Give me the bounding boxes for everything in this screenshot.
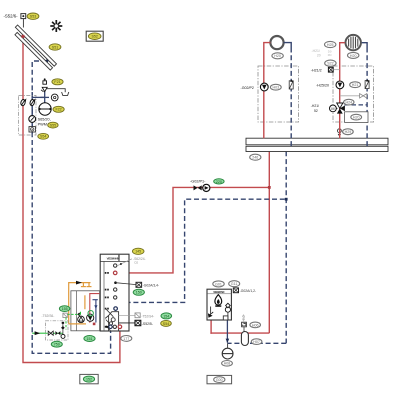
circuit 2 underfloor symbol: [346, 35, 361, 50]
storage tank body: [100, 254, 129, 331]
svg-text:F21: F21: [54, 80, 60, 84]
label S51: [49, 44, 61, 50]
pump G02/P1 group: [190, 180, 210, 192]
svg-text:G11: G11: [231, 282, 238, 286]
wire circuit2 flow (red): [340, 43, 345, 139]
label H07: [251, 339, 262, 345]
svg-text:H24: H24: [346, 101, 353, 105]
node collector flow tap (red): [22, 35, 25, 38]
label S52 boxed: [86, 31, 103, 41]
pump module P1: [77, 312, 84, 322]
svg-text:-T52/S4-: -T52/S4-: [141, 314, 154, 318]
svg-text:-H21/: -H21/: [312, 49, 320, 53]
label 759: [51, 341, 62, 347]
svg-text:-S52/6-: -S52/6-: [4, 14, 19, 19]
wire discharge to funnel: [47, 89, 66, 93]
tank coil diagonals: [106, 309, 114, 331]
boiler body: [207, 289, 231, 320]
svg-text:-G02/P2: -G02/P2: [241, 86, 254, 90]
solar expansion vessel: [39, 103, 51, 115]
label G00 boxed: [207, 375, 232, 383]
svg-text:155: 155: [62, 307, 68, 311]
circuit 2 group box: [333, 66, 374, 122]
wire cold water inlet (green) with arrow: [32, 318, 66, 336]
pressure gauge P: [51, 94, 58, 101]
svg-text:VIESMANN: VIESMANN: [107, 256, 120, 260]
svg-text:M: M: [331, 107, 334, 111]
sensor lead S62/24: [117, 257, 146, 266]
wire boiler return drop (navy) with arrow: [226, 320, 230, 343]
boiler siphon: [223, 316, 228, 320]
svg-text:-H21/: -H21/: [311, 104, 319, 108]
manifold bar 2: [246, 146, 388, 151]
svg-text:S55: S55: [50, 124, 56, 128]
label G01: [213, 281, 224, 287]
pump H25/20: [316, 81, 344, 89]
sensor T52/S4: [119, 313, 155, 319]
bypass valve circuit2: [340, 94, 367, 98]
wire circuit1 flow (red): [264, 43, 271, 139]
solar pump S65/20: [29, 116, 36, 123]
boiler flame: [215, 295, 222, 307]
svg-text:220: 220: [216, 180, 222, 184]
svg-text:246: 246: [252, 156, 258, 160]
wire module cold (blue) with arrow: [93, 300, 98, 323]
sun symbol: [50, 20, 62, 32]
sensor S52/6 collector: [4, 14, 26, 19]
label 145: [132, 248, 144, 254]
svg-text:H03: H03: [273, 86, 280, 90]
wire solar return (blue dashed) collector to tank bottom: [32, 60, 110, 354]
svg-text:0N: 0N: [328, 53, 332, 57]
svg-text:-T52/S6-: -T52/S6-: [42, 314, 55, 318]
svg-text:H06: H06: [252, 323, 259, 327]
circuit 1 radiator symbol: [270, 36, 283, 49]
manifold bar 1: [246, 138, 388, 145]
DHW stack fittings: [61, 322, 65, 339]
svg-text:F22: F22: [55, 108, 61, 112]
svg-text:S22: S22: [327, 62, 333, 66]
label 154: [161, 313, 172, 319]
DHW inlet module box: [46, 321, 69, 340]
sensor G02A/1,2: [233, 288, 256, 293]
label S55: [48, 122, 58, 128]
label 152 boxed: [80, 374, 98, 383]
label 150: [133, 289, 144, 295]
air vent: [43, 78, 47, 84]
label 155: [59, 306, 69, 312]
svg-text:D2: D2: [135, 261, 139, 265]
label H29: [343, 129, 354, 135]
pressure gauge boiler: [222, 343, 233, 359]
svg-text:-H21/2: -H21/2: [311, 69, 322, 73]
safety valve: [41, 87, 47, 92]
label H21/20 text: [312, 49, 332, 58]
arrow DHW flow: [76, 281, 82, 285]
svg-text:H21: H21: [352, 83, 359, 87]
label H20 circuit1: [272, 53, 283, 59]
svg-text:S65/20,: S65/20,: [38, 118, 51, 122]
svg-text:-S52/5-: -S52/5-: [142, 322, 153, 326]
svg-text:H08: H08: [224, 362, 231, 366]
manifold air vent on circuit2 riser: [338, 129, 342, 137]
wire solar flow (red) collector to tank bottom: [23, 36, 120, 362]
sensor T52/S6 label: [42, 313, 68, 318]
svg-text:154: 154: [163, 314, 169, 318]
label S54: [38, 133, 49, 139]
svg-text:S51: S51: [52, 45, 58, 49]
svg-text:H25: H25: [327, 43, 334, 47]
label H08: [222, 361, 233, 367]
valve V1 on solar flow: [20, 98, 26, 106]
label 177: [121, 336, 132, 342]
svg-text:S54: S54: [40, 135, 46, 139]
label F21: [52, 79, 63, 85]
valve DHW black: [55, 331, 60, 335]
solar pump station box: [19, 96, 37, 136]
mixing valve H21/52: [311, 103, 345, 114]
label S65/20 PWM text: [38, 118, 51, 127]
label H20 boxed circuit2: [345, 112, 368, 123]
tank left flange marks: [105, 272, 109, 328]
svg-text:759: 759: [54, 343, 60, 347]
node tank mid sensor: [114, 281, 117, 284]
svg-text:52: 52: [314, 109, 318, 113]
circuit 1 group box: [258, 66, 299, 122]
label 246: [250, 154, 261, 160]
expansion vessel boiler: [241, 332, 248, 346]
label H21: [350, 82, 361, 88]
svg-text:H20: H20: [353, 116, 360, 120]
sensor S52/5: [119, 320, 153, 326]
svg-text:20: 20: [317, 53, 321, 57]
label S53: [27, 13, 39, 19]
label 220: [214, 179, 224, 184]
label H06: [250, 322, 261, 328]
wire tee to safety group (blue): [32, 96, 45, 98]
svg-text:H07: H07: [253, 340, 260, 344]
wire circuit2 return (navy dashed): [345, 43, 368, 147]
solar collector panel: [15, 25, 57, 70]
flow meter: [29, 127, 35, 132]
svg-text:145: 145: [135, 250, 141, 254]
tank port circles: [109, 264, 122, 329]
boiler burner: [208, 307, 213, 318]
svg-text:G01: G01: [215, 282, 222, 286]
drain valve and label: [242, 314, 247, 332]
svg-text:S53: S53: [30, 15, 36, 19]
check valve circuit1: [289, 80, 293, 89]
wire collector sensor lead: [22, 19, 24, 28]
funnel: [62, 92, 69, 95]
tank inner vessel outline: [105, 312, 118, 331]
label S22: [325, 60, 336, 66]
svg-text:177: 177: [123, 337, 129, 341]
valve DHW white: [48, 331, 53, 335]
wire tank flow to pump G02/P1 and boiler riser (red): [117, 151, 271, 333]
svg-text:150: 150: [136, 291, 142, 295]
svg-text:-G02/P1-: -G02/P1-: [190, 180, 206, 184]
svg-text:H29: H29: [345, 130, 352, 134]
valve V2 on solar return: [29, 98, 35, 106]
check valve circuit2: [365, 79, 369, 88]
sensor bulb green: [88, 311, 93, 316]
wire circuit1 return (navy dashed): [284, 43, 292, 147]
fresh water module box: [71, 291, 100, 331]
wire boiler flow bottom (red): [210, 320, 212, 334]
sensor H21/2: [311, 67, 340, 72]
label F22: [53, 106, 64, 112]
pump module P2: [87, 314, 94, 321]
boiler pump: [225, 303, 230, 320]
tank inner circles: [111, 318, 115, 322]
wire module hot (red): [90, 294, 100, 323]
label 151: [84, 336, 95, 342]
svg-text:-G02A/3,4-: -G02A/3,4-: [143, 283, 160, 287]
svg-text:-H25/20: -H25/20: [316, 84, 329, 88]
sensor G02A/3,4: [116, 282, 160, 287]
svg-text:H20: H20: [274, 54, 281, 58]
svg-text:S52: S52: [91, 35, 97, 39]
label H25: [325, 41, 336, 47]
svg-text:PWM: PWM: [38, 123, 47, 127]
wire DHW outlet (orange) with taps: [69, 283, 92, 324]
label H24: [344, 99, 354, 105]
svg-text:H20: H20: [350, 54, 357, 58]
label G11: [229, 281, 240, 287]
svg-text:-6l,0l-: -6l,0l-: [242, 314, 246, 322]
svg-text:G00: G00: [216, 378, 223, 382]
svg-text:S54: S54: [163, 322, 169, 326]
label H20 circuit2: [348, 52, 359, 58]
svg-text:152: 152: [86, 378, 92, 382]
pump G02/P2: [241, 83, 269, 91]
svg-text:151: 151: [87, 337, 93, 341]
label H03: [270, 84, 281, 90]
wire heating return (blue dashed) tank to manifold and boiler: [116, 151, 288, 343]
svg-text:-G02A/1,2-: -G02A/1,2-: [240, 289, 257, 293]
wire sensor T52/S6 (green): [67, 312, 80, 315]
label S54 tank: [161, 320, 172, 326]
